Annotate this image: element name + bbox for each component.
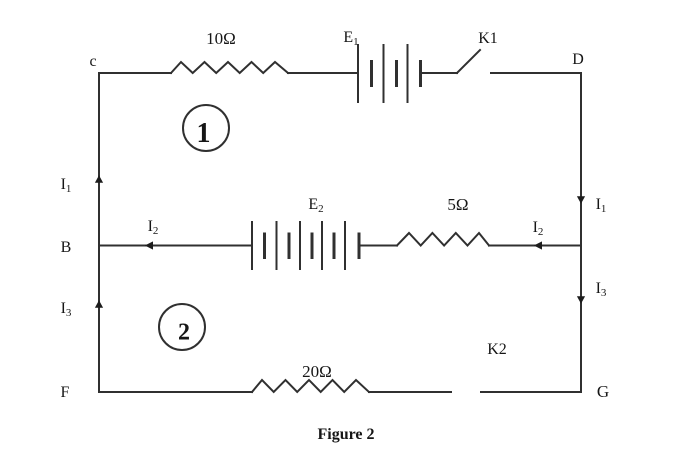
svg-text:c: c [89, 53, 96, 70]
switch K1 blade (open) [457, 50, 480, 73]
svg-text:D: D [572, 51, 584, 68]
resistor R2 5ohm [397, 233, 489, 246]
svg-text:Figure 2: Figure 2 [317, 426, 374, 443]
svg-text:K2: K2 [487, 341, 507, 358]
wire c to R1 (top left) [99, 72, 171, 74]
svg-text:B: B [61, 239, 72, 256]
svg-text:5Ω: 5Ω [447, 195, 468, 214]
battery E1 plates [358, 45, 421, 102]
switch K2 (open gap) wire to G [481, 391, 581, 393]
svg-text:I3: I3 [596, 280, 607, 299]
arrow I3 down (right wire) [577, 296, 585, 304]
loop label 2 circle [159, 304, 205, 350]
battery E2 plates [252, 222, 359, 269]
svg-text:G: G [597, 382, 609, 401]
svg-text:2: 2 [178, 320, 190, 346]
wire R2 to right junction [489, 245, 581, 247]
svg-text:10Ω: 10Ω [206, 29, 236, 48]
svg-text:I2: I2 [533, 219, 544, 238]
svg-text:I2: I2 [148, 218, 159, 237]
resistor R1 10ohm [171, 62, 288, 73]
resistor R3 20ohm [252, 380, 369, 392]
svg-text:20Ω: 20Ω [302, 362, 332, 381]
arrow I3 up (left wire) [95, 300, 103, 308]
middle wire B to junction [99, 245, 252, 247]
loop label 1 circle [183, 105, 229, 151]
svg-text:I1: I1 [596, 196, 607, 215]
svg-text:F: F [61, 384, 70, 401]
wire K1 to D corner [491, 72, 581, 74]
svg-text:E1: E1 [343, 29, 358, 48]
svg-text:I1: I1 [61, 176, 72, 195]
wire E1 to switch K1 [421, 72, 458, 74]
svg-text:K1: K1 [478, 30, 498, 47]
right vertical wire D to G [580, 73, 582, 392]
arrow I1 up (left wire) [95, 175, 103, 183]
left vertical wire c to F [98, 73, 100, 392]
svg-text:E2: E2 [308, 196, 323, 215]
svg-text:I3: I3 [61, 300, 72, 319]
wire R3 to switch K2 [369, 391, 451, 393]
bottom wire F to R3 [99, 391, 252, 393]
wire E2 to R2 [359, 245, 397, 247]
arrow I1 down (right wire) [577, 196, 585, 204]
arrow I2 left (middle wire right) [534, 241, 542, 249]
arrow I2 left (middle wire left) [145, 241, 153, 249]
wire R1 to E1 [288, 72, 358, 74]
svg-text:1: 1 [197, 118, 211, 149]
